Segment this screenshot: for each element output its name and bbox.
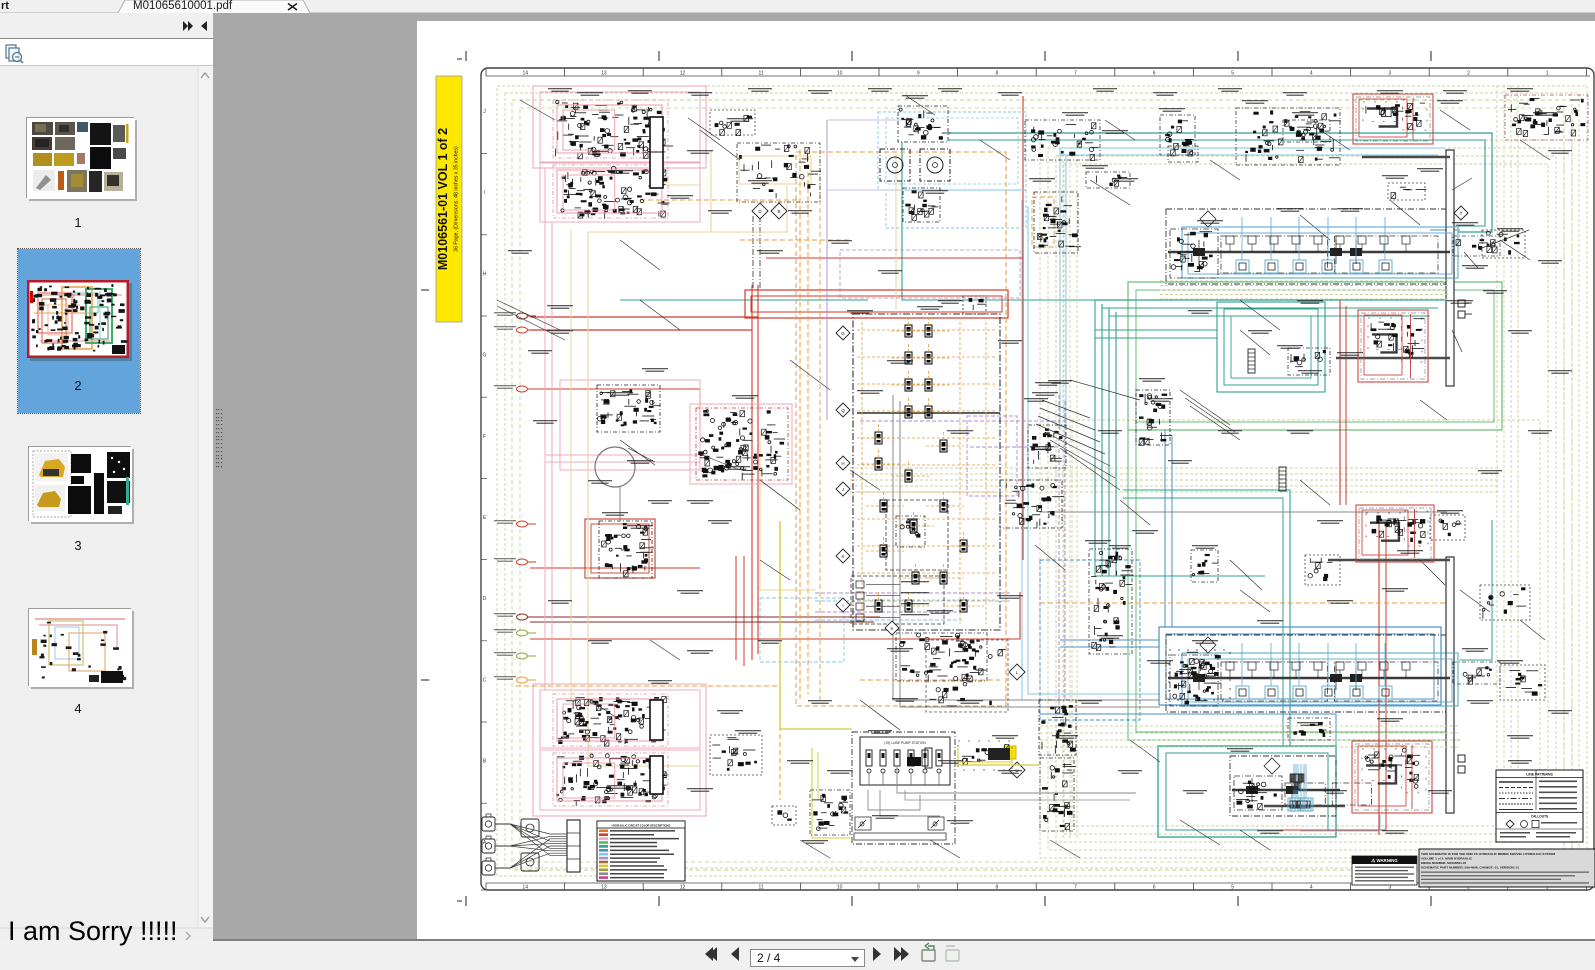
svg-text:C: C xyxy=(483,677,487,683)
svg-text:B: B xyxy=(777,209,780,214)
svg-text:11: 11 xyxy=(758,885,763,891)
svg-text:10: 10 xyxy=(837,885,843,891)
svg-text:G: G xyxy=(841,331,845,336)
svg-text:D: D xyxy=(483,596,487,602)
svg-text:⚠ WARNING: ⚠ WARNING xyxy=(1371,858,1398,863)
svg-text:13: 13 xyxy=(601,71,607,77)
svg-text:F: F xyxy=(483,434,486,440)
svg-text:Q: Q xyxy=(841,408,845,413)
svg-text:12: 12 xyxy=(680,71,686,77)
svg-text:4: 4 xyxy=(1310,885,1313,891)
svg-text:I: I xyxy=(842,603,843,608)
svg-text:14: 14 xyxy=(523,71,529,77)
svg-text:M0106561-01 VOL 1 of 2: M0106561-01 VOL 1 of 2 xyxy=(436,128,450,270)
svg-text:SCHEMATIC PART NUMBER: 569-460: SCHEMATIC PART NUMBER: 569-4608, CHANGE:… xyxy=(1421,866,1519,870)
svg-text:T: T xyxy=(1460,211,1463,216)
svg-text:I: I xyxy=(484,190,485,196)
svg-text:6: 6 xyxy=(1153,885,1156,891)
svg-text:11: 11 xyxy=(758,71,763,77)
svg-text:K: K xyxy=(890,626,893,631)
svg-text:3: 3 xyxy=(1389,71,1392,77)
svg-text:12: 12 xyxy=(680,885,686,891)
svg-text:2: 2 xyxy=(1467,71,1470,77)
svg-text:THIS SCHEMATIC IS FOR THE 6030: THIS SCHEMATIC IS FOR THE 6030 FS HYDRAU… xyxy=(1421,852,1556,856)
svg-text:3: 3 xyxy=(1389,885,1392,891)
svg-text:5: 5 xyxy=(1231,885,1234,891)
svg-text:MEDIA NUMBER: M0106561-01: MEDIA NUMBER: M0106561-01 xyxy=(1421,861,1467,865)
svg-text:J: J xyxy=(842,487,844,492)
svg-text:CALLOUTS: CALLOUTS xyxy=(1531,815,1548,819)
svg-text:10: 10 xyxy=(837,71,843,77)
svg-text:B: B xyxy=(483,759,487,765)
svg-text:8: 8 xyxy=(996,71,999,77)
svg-text:5: 5 xyxy=(1231,71,1234,77)
svg-text:H: H xyxy=(483,271,487,277)
svg-text:HYDRAULIC CIRCUIT COLOR DESCRI: HYDRAULIC CIRCUIT COLOR DESCRIPTIONS xyxy=(612,823,671,827)
svg-text:E: E xyxy=(483,515,487,521)
svg-text:14: 14 xyxy=(523,885,529,891)
svg-text:K: K xyxy=(841,554,844,559)
svg-text:J: J xyxy=(483,109,486,115)
svg-text:13: 13 xyxy=(601,885,607,891)
svg-text:4: 4 xyxy=(1310,71,1313,77)
svg-text:VOLUME 1 of 2: MAIN HYDRAULIC: VOLUME 1 of 2: MAIN HYDRAULIC xyxy=(1421,857,1473,861)
svg-text:9: 9 xyxy=(917,885,920,891)
svg-text:(19) LUBE PUMP STATION: (19) LUBE PUMP STATION xyxy=(884,741,926,745)
svg-text:7: 7 xyxy=(1074,885,1077,891)
svg-text:36 Page, (Dimensions: 48 inche: 36 Page, (Dimensions: 48 inches x 35 inc… xyxy=(454,146,460,252)
svg-text:8: 8 xyxy=(996,885,999,891)
svg-text:G: G xyxy=(483,353,487,359)
svg-text:LINE PATTERNS: LINE PATTERNS xyxy=(1526,773,1553,777)
svg-text:A: A xyxy=(483,840,487,846)
svg-text:H: H xyxy=(841,461,844,466)
svg-text:1: 1 xyxy=(1546,71,1549,77)
svg-text:6: 6 xyxy=(1153,71,1156,77)
svg-text:7: 7 xyxy=(1074,71,1077,77)
svg-text:9: 9 xyxy=(917,71,920,77)
